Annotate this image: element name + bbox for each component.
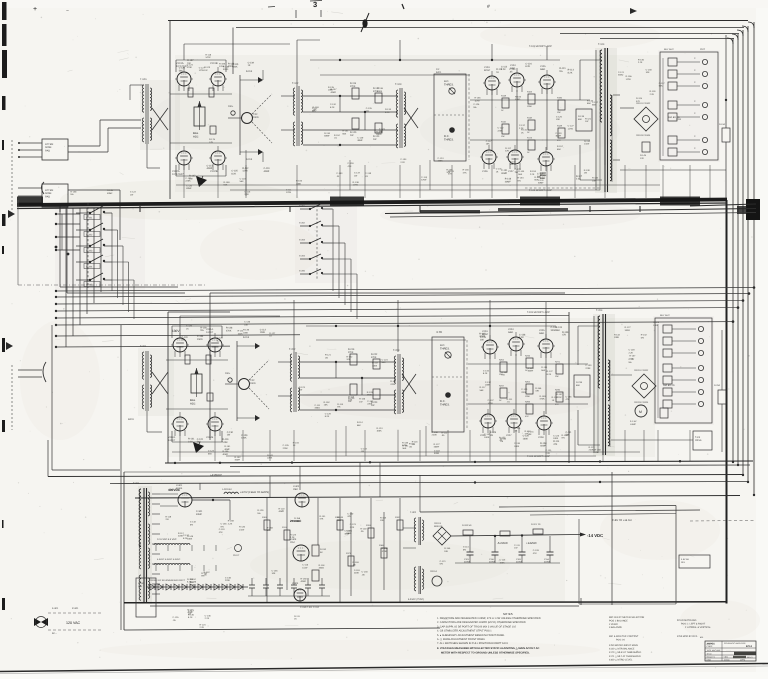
svg-text:2.2K: 2.2K xyxy=(244,193,249,196)
svg-text:220K: 220K xyxy=(497,129,503,132)
svg-text:5%: 5% xyxy=(518,179,521,182)
svg-text:100K: 100K xyxy=(653,324,659,327)
svg-text:R-139: R-139 xyxy=(432,431,439,434)
svg-text:8.2K: 8.2K xyxy=(385,111,390,114)
svg-text:R-147: R-147 xyxy=(372,362,379,365)
svg-text:R-151: R-151 xyxy=(409,443,416,446)
svg-text:R-145: R-145 xyxy=(187,535,194,538)
svg-text:C-113: C-113 xyxy=(206,164,213,167)
svg-text:R-150: R-150 xyxy=(301,577,308,580)
svg-text:R-122: R-122 xyxy=(346,355,353,358)
svg-text:C-113: C-113 xyxy=(421,176,428,179)
svg-text:OB2: OB2 xyxy=(293,488,298,491)
svg-text:NOTES: NOTES xyxy=(503,612,513,616)
svg-text:R148: R148 xyxy=(501,95,507,98)
svg-text:100K: 100K xyxy=(376,430,382,433)
svg-text:8.2K: 8.2K xyxy=(540,177,545,180)
svg-text:5%: 5% xyxy=(221,525,224,528)
svg-text:10K: 10K xyxy=(556,118,560,121)
svg-text:R-134: R-134 xyxy=(592,177,599,180)
svg-text:100K: 100K xyxy=(372,364,378,367)
svg-text:5881: 5881 xyxy=(540,68,546,71)
svg-text:C-132: C-132 xyxy=(367,400,374,403)
svg-text:REV 2: REV 2 xyxy=(747,656,752,659)
svg-text:330Ω: 330Ω xyxy=(515,98,521,101)
svg-text:8.2K: 8.2K xyxy=(217,339,222,342)
svg-text:R-151: R-151 xyxy=(541,366,548,369)
svg-text:R-157: R-157 xyxy=(187,59,194,62)
svg-text:C-117: C-117 xyxy=(659,82,666,85)
svg-text:5%: 5% xyxy=(628,361,631,364)
svg-text:R-222: R-222 xyxy=(371,353,378,356)
svg-text:R-321 7Ω: R-321 7Ω xyxy=(531,523,541,526)
svg-text:330Ω: 330Ω xyxy=(625,329,631,332)
svg-text:6. ( ) KNOB ADJUSTMENT FRONT P: 6. ( ) KNOB ADJUSTMENT FRONT PANEL xyxy=(437,638,486,641)
svg-text:M: M xyxy=(639,410,642,414)
svg-text:330Ω: 330Ω xyxy=(197,338,203,341)
svg-text:R-159: R-159 xyxy=(224,181,231,184)
svg-text:C-128: C-128 xyxy=(533,549,540,552)
svg-text:P-203 SECRET LOOP: P-203 SECRET LOOP xyxy=(527,455,551,458)
svg-text:F-301: F-301 xyxy=(52,607,59,610)
svg-text:PAD: PAD xyxy=(45,149,50,152)
svg-text:C-110: C-110 xyxy=(330,103,337,106)
svg-text:8.2K: 8.2K xyxy=(188,616,193,619)
svg-text:R-114: R-114 xyxy=(357,421,364,424)
svg-text:OA2: OA2 xyxy=(290,541,295,544)
svg-text:100+: 100+ xyxy=(228,105,234,108)
svg-text:L-301 8H: L-301 8H xyxy=(222,488,232,491)
svg-text:SCALE ½: SCALE ½ xyxy=(707,656,716,659)
svg-text:C-124: C-124 xyxy=(437,157,444,160)
svg-text:R-123: R-123 xyxy=(299,386,306,389)
svg-text:C-115: C-115 xyxy=(480,336,487,339)
svg-text:R173: R173 xyxy=(527,137,533,140)
svg-text:R-141: R-141 xyxy=(390,380,397,383)
svg-text:2.2K: 2.2K xyxy=(205,617,210,620)
svg-text:C-117: C-117 xyxy=(628,358,635,361)
svg-text:THRES.: THRES. xyxy=(440,403,450,406)
svg-text:5%: 5% xyxy=(473,106,476,109)
svg-text:130V: 130V xyxy=(172,329,180,333)
svg-text:40MF: 40MF xyxy=(528,369,534,372)
svg-text:56K: 56K xyxy=(659,85,663,88)
svg-text:7. ALL SWITCHES SHOWN IN FULL: 7. ALL SWITCHES SHOWN IN FULL POSITION E… xyxy=(437,642,509,645)
svg-text:R-155: R-155 xyxy=(296,180,303,183)
svg-text:R-129: R-129 xyxy=(257,509,264,512)
svg-text:R-153: R-153 xyxy=(530,170,537,173)
svg-text:R-152: R-152 xyxy=(324,401,331,404)
svg-text:P-301: P-301 xyxy=(72,607,79,610)
svg-text:220K: 220K xyxy=(521,391,527,394)
svg-text:T.02: T.02 xyxy=(250,379,255,382)
svg-text:C-125: C-125 xyxy=(556,115,563,118)
svg-text:SCHEMATIC AMPLIFIER: SCHEMATIC AMPLIFIER xyxy=(724,642,746,645)
svg-text:8.2K: 8.2K xyxy=(547,373,552,376)
svg-text:R-132: R-132 xyxy=(584,140,591,143)
svg-text:1/2 12AX7: 1/2 12AX7 xyxy=(172,173,184,176)
svg-text:2.2K: 2.2K xyxy=(629,351,634,354)
svg-text:5%: 5% xyxy=(463,548,466,551)
svg-text:POS 1-6: POS 1-6 xyxy=(616,638,626,641)
svg-text:~: ~ xyxy=(66,8,69,14)
svg-text:C-120: C-120 xyxy=(217,337,224,340)
svg-text:5881: 5881 xyxy=(508,331,514,334)
svg-text:R-115: R-115 xyxy=(232,63,239,66)
svg-text:C-122: C-122 xyxy=(497,127,504,130)
svg-text:40MF: 40MF xyxy=(196,513,202,516)
svg-text:5%: 5% xyxy=(641,336,644,339)
svg-text:R-152: R-152 xyxy=(334,134,341,137)
svg-text:R-145: R-145 xyxy=(640,154,647,157)
svg-text:R-158: R-158 xyxy=(595,448,602,451)
svg-text:R-320 5Ω: R-320 5Ω xyxy=(462,524,472,527)
svg-text:R-176: R-176 xyxy=(209,138,216,141)
svg-text:CORP: CORP xyxy=(707,645,713,648)
svg-text:56K: 56K xyxy=(337,519,341,522)
svg-text:R-119: R-119 xyxy=(650,90,657,93)
svg-text:R-143: R-143 xyxy=(540,174,547,177)
svg-text:1K: 1K xyxy=(248,64,251,67)
svg-text:. . . . .: . . . . . xyxy=(726,650,731,652)
svg-text:56K: 56K xyxy=(312,110,316,113)
svg-text:C-110: C-110 xyxy=(263,167,270,170)
svg-text:CR313: CR313 xyxy=(434,522,442,525)
svg-text:10K: 10K xyxy=(555,375,559,378)
svg-text:T-301: T-301 xyxy=(133,482,140,485)
svg-text:V208: V208 xyxy=(538,436,544,439)
svg-text:220K: 220K xyxy=(178,535,184,538)
svg-text:5%: 5% xyxy=(200,329,203,332)
svg-text:T-203: T-203 xyxy=(393,349,400,352)
svg-text:100K: 100K xyxy=(377,90,383,93)
svg-text:R-135: R-135 xyxy=(187,578,194,581)
svg-text:R-219: R-219 xyxy=(348,348,355,351)
svg-text:R-117: R-117 xyxy=(576,175,583,178)
svg-text:R-144: R-144 xyxy=(501,371,508,374)
svg-text:R-143: R-143 xyxy=(587,99,594,102)
svg-text:8.2K: 8.2K xyxy=(325,415,330,418)
svg-text:8.2K: 8.2K xyxy=(231,172,236,175)
svg-text:40MF: 40MF xyxy=(263,170,269,173)
svg-text:R-127: R-127 xyxy=(434,443,441,446)
svg-text:47K: 47K xyxy=(319,518,323,521)
svg-text:R-139: R-139 xyxy=(243,329,250,332)
svg-text:40MF: 40MF xyxy=(331,91,337,94)
svg-text:R235: R235 xyxy=(555,389,561,392)
svg-text:C-136: C-136 xyxy=(221,523,228,526)
svg-text:R-120: R-120 xyxy=(360,527,367,530)
svg-text:C-138: C-138 xyxy=(225,576,232,579)
svg-text:R-124: R-124 xyxy=(376,427,383,430)
svg-text:470K: 470K xyxy=(367,394,373,397)
svg-text:47K: 47K xyxy=(533,552,537,555)
svg-text:47K: 47K xyxy=(525,415,529,418)
svg-text:TAPE MACHINE: TAPE MACHINE xyxy=(707,649,722,652)
svg-text:R-147: R-147 xyxy=(331,88,338,91)
svg-text:R-148: R-148 xyxy=(505,178,512,181)
svg-text:56K: 56K xyxy=(342,132,346,135)
svg-text:-14 VDC: -14 VDC xyxy=(587,533,603,538)
svg-text:47K: 47K xyxy=(448,173,452,176)
svg-text:R-157: R-157 xyxy=(557,145,564,148)
svg-text:56K: 56K xyxy=(541,369,545,372)
svg-text:R-141: R-141 xyxy=(319,515,326,518)
svg-text:+370V (FEED TO AMPS): +370V (FEED TO AMPS) xyxy=(240,491,269,494)
svg-text:R-250: R-250 xyxy=(714,384,721,387)
svg-text:5U4G: 5U4G xyxy=(176,487,182,490)
svg-text:R-147: R-147 xyxy=(556,393,563,396)
svg-text:330Ω: 330Ω xyxy=(434,452,440,455)
svg-text:R-132: R-132 xyxy=(641,334,648,337)
svg-text:100K: 100K xyxy=(232,66,238,69)
svg-text:2.2K: 2.2K xyxy=(200,626,205,629)
svg-text:5%: 5% xyxy=(257,512,260,515)
svg-text:C-130: C-130 xyxy=(585,364,592,367)
svg-text:40MF: 40MF xyxy=(505,180,511,183)
svg-text:R293: R293 xyxy=(525,401,531,404)
svg-text:R-114: R-114 xyxy=(337,403,344,406)
svg-text:470K: 470K xyxy=(390,383,396,386)
svg-text:4171 △ MLT AT THRESHOLD: 4171 △ MLT AT THRESHOLD xyxy=(609,655,641,658)
svg-text:C-111: C-111 xyxy=(565,431,572,434)
svg-text:R-118: R-118 xyxy=(614,334,621,337)
svg-text:THIS TO +14 SU: THIS TO +14 SU xyxy=(612,519,632,522)
svg-text:40MF: 40MF xyxy=(279,510,285,513)
svg-text:40MF: 40MF xyxy=(501,172,507,175)
svg-text:220K: 220K xyxy=(589,449,595,452)
svg-text:1K: 1K xyxy=(496,71,499,74)
svg-text:T-103 SECRET LOOP: T-103 SECRET LOOP xyxy=(529,45,552,48)
svg-text:C-132: C-132 xyxy=(190,521,197,524)
svg-text:0-1.5V: 0-1.5V xyxy=(630,420,637,423)
svg-text:C-123: C-123 xyxy=(208,450,215,453)
svg-text:THRES.: THRES. xyxy=(444,138,454,141)
svg-text:C-128: C-128 xyxy=(551,326,558,329)
svg-text:BLK WHT: BLK WHT xyxy=(664,48,674,51)
svg-text:C-119: C-119 xyxy=(354,569,361,572)
svg-text:+410VDC: +410VDC xyxy=(210,473,222,477)
svg-text:2.2K: 2.2K xyxy=(650,93,655,96)
svg-text:220K: 220K xyxy=(283,447,289,450)
svg-text:C-123: C-123 xyxy=(350,523,357,526)
svg-text:R-148: R-148 xyxy=(353,561,360,564)
svg-text:C-126: C-126 xyxy=(473,103,480,106)
svg-text:T-103: T-103 xyxy=(395,83,402,86)
svg-text:R-159: R-159 xyxy=(228,520,235,523)
svg-text:1. RESISTORS ARE DESIGNATED 0: 1. RESISTORS ARE DESIGNATED 0.05MF, 47K … xyxy=(437,617,541,620)
svg-text:C-124: C-124 xyxy=(525,62,532,65)
svg-text:R-152: R-152 xyxy=(525,430,532,433)
svg-text:100K: 100K xyxy=(527,105,532,108)
svg-text:C-129: C-129 xyxy=(357,136,364,139)
svg-text:3. CAP SUPPL 82 DE PORT OF TRI: 3. CAP SUPPL 82 DE PORT OF TRIO B MIX 3 … xyxy=(437,625,517,628)
svg-text:R-155: R-155 xyxy=(222,450,229,453)
svg-text:4160 △ MTRD LEVEL: 4160 △ MTRD LEVEL xyxy=(609,658,633,661)
svg-text:270K: 270K xyxy=(350,85,356,88)
svg-text:PAD: PAD xyxy=(45,195,50,198)
svg-text:R-123: R-123 xyxy=(290,533,297,536)
svg-text:56K: 56K xyxy=(565,434,570,437)
svg-text:56K: 56K xyxy=(480,389,484,392)
svg-text:R-138: R-138 xyxy=(353,181,360,184)
svg-text:6.3VAC (7VDC): 6.3VAC (7VDC) xyxy=(408,598,424,601)
svg-text:ADJ.: ADJ. xyxy=(190,401,196,405)
svg-text:100+: 100+ xyxy=(225,372,231,375)
svg-text:V107: V107 xyxy=(508,170,514,173)
svg-text:R-141: R-141 xyxy=(267,454,274,457)
svg-text:220K: 220K xyxy=(432,434,438,437)
svg-text:C-111: C-111 xyxy=(514,544,520,547)
svg-text:R-134: R-134 xyxy=(324,132,331,135)
svg-text:R-138: R-138 xyxy=(402,441,409,444)
svg-text:R-159: R-159 xyxy=(382,547,389,550)
svg-text:R-139: R-139 xyxy=(200,326,207,329)
svg-text:56K: 56K xyxy=(592,104,596,107)
svg-text:C-117: C-117 xyxy=(486,140,493,143)
svg-text:C-110: C-110 xyxy=(219,528,226,531)
svg-text:2.2K: 2.2K xyxy=(350,526,355,529)
svg-text:47K: 47K xyxy=(557,139,561,142)
svg-text:R-124: R-124 xyxy=(200,623,207,626)
svg-text:10K: 10K xyxy=(244,323,248,326)
svg-text:R-158: R-158 xyxy=(294,517,301,520)
svg-text:C-301: C-301 xyxy=(196,510,203,513)
svg-text:R-139: R-139 xyxy=(578,115,585,118)
svg-text:BRIDGE: BRIDGE xyxy=(434,525,443,528)
svg-text:56K: 56K xyxy=(587,102,591,105)
svg-text:T-104: T-104 xyxy=(598,43,605,46)
svg-text:C-120: C-120 xyxy=(653,321,660,324)
svg-text:C-136: C-136 xyxy=(566,395,573,398)
svg-text:R-112: R-112 xyxy=(178,532,185,535)
svg-text:R-158: R-158 xyxy=(380,516,387,519)
svg-text:S-205: S-205 xyxy=(299,270,306,273)
svg-text:C-134: C-134 xyxy=(483,369,490,372)
svg-text:V207: V207 xyxy=(506,434,512,437)
svg-text:5881: 5881 xyxy=(539,332,545,335)
svg-text:R-121: R-121 xyxy=(589,446,596,449)
svg-text:C-133: C-133 xyxy=(362,571,369,574)
svg-text:470K: 470K xyxy=(371,356,377,359)
svg-text:R-119: R-119 xyxy=(222,438,229,441)
svg-text:T-201: T-201 xyxy=(140,345,147,348)
svg-text:TITLE: TITLE xyxy=(707,652,713,655)
svg-text:C-114: C-114 xyxy=(463,546,470,549)
svg-text:S-203: S-203 xyxy=(299,239,306,242)
svg-text:C-121: C-121 xyxy=(379,128,386,131)
svg-text:C-111: C-111 xyxy=(312,107,318,110)
svg-text:R-239: R-239 xyxy=(576,381,583,384)
svg-text:100K: 100K xyxy=(485,384,491,387)
svg-text:100K: 100K xyxy=(523,437,529,440)
svg-text:R-114: R-114 xyxy=(553,440,560,443)
svg-text:C-120: C-120 xyxy=(186,184,193,187)
svg-text:40MF: 40MF xyxy=(301,580,307,583)
svg-text:4760 WATED INPUT MAIN: 4760 WATED INPUT MAIN xyxy=(609,644,638,647)
svg-text:60 ~: 60 ~ xyxy=(52,632,57,635)
svg-text:R-121: R-121 xyxy=(325,354,332,357)
svg-text:C-120: C-120 xyxy=(186,325,193,328)
svg-text:C-129: C-129 xyxy=(325,412,332,415)
svg-text:330Ω: 330Ω xyxy=(551,329,557,332)
svg-text:R-112: R-112 xyxy=(441,431,448,434)
svg-text:R190: R190 xyxy=(557,97,563,100)
svg-text:C-128: C-128 xyxy=(348,162,355,165)
svg-text:40MF: 40MF xyxy=(324,135,330,138)
svg-text:R-139: R-139 xyxy=(562,331,569,334)
svg-text:56K: 56K xyxy=(556,329,561,332)
svg-text:R-146: R-146 xyxy=(359,398,366,401)
svg-text:1/2W: 1/2W xyxy=(242,170,248,173)
svg-text:2.2K: 2.2K xyxy=(400,161,405,164)
svg-text:R-127: R-127 xyxy=(189,175,196,178)
svg-text:C-135: C-135 xyxy=(272,569,279,572)
svg-text:2.2K: 2.2K xyxy=(190,583,195,586)
svg-text:R-138: R-138 xyxy=(540,442,547,445)
svg-text:330Ω: 330Ω xyxy=(319,567,325,570)
svg-text:10K: 10K xyxy=(480,339,485,342)
svg-text:R-119: R-119 xyxy=(165,515,172,518)
svg-text:10K: 10K xyxy=(646,71,650,74)
svg-text:8.2K: 8.2K xyxy=(519,336,524,339)
svg-text:R163: R163 xyxy=(527,91,533,94)
svg-text:C-119: C-119 xyxy=(434,449,441,452)
svg-text:T-202: T-202 xyxy=(289,348,296,351)
svg-text:8.2K: 8.2K xyxy=(330,106,335,109)
svg-text:3: 3 xyxy=(313,0,317,9)
svg-text:OUT: OUT xyxy=(700,48,706,51)
svg-text:C-129: C-129 xyxy=(629,349,636,352)
svg-text:T-302: T-302 xyxy=(410,511,417,514)
svg-text:470K: 470K xyxy=(540,398,546,401)
svg-text:R-152: R-152 xyxy=(234,456,241,459)
svg-text:3 BALANCE: 3 BALANCE xyxy=(609,626,623,629)
svg-text:C-120: C-120 xyxy=(181,336,188,339)
svg-text:40MF: 40MF xyxy=(357,139,363,142)
svg-text:47K: 47K xyxy=(348,165,352,168)
svg-text:40MF: 40MF xyxy=(540,445,546,448)
svg-text:8.2K: 8.2K xyxy=(568,72,573,75)
svg-text:10K: 10K xyxy=(348,398,352,401)
svg-text:S-202: S-202 xyxy=(299,222,306,225)
svg-text:56K: 56K xyxy=(357,424,361,427)
svg-text:C-139: C-139 xyxy=(248,61,255,64)
svg-text:R-128: R-128 xyxy=(226,327,233,330)
svg-text:56K: 56K xyxy=(197,441,202,444)
svg-text:8.2K: 8.2K xyxy=(525,65,530,68)
svg-text:CR201 CR202: CR201 CR202 xyxy=(634,369,649,372)
svg-text:47K: 47K xyxy=(219,531,223,534)
svg-text:V106: V106 xyxy=(482,170,488,173)
svg-text:270K: 270K xyxy=(348,351,354,354)
svg-text:C-113: C-113 xyxy=(499,559,506,562)
svg-text:BLK WHT: BLK WHT xyxy=(660,314,670,317)
svg-text:470K: 470K xyxy=(187,66,193,69)
svg-text:4140 △ MTR BALANCE: 4140 △ MTR BALANCE xyxy=(609,648,635,651)
svg-text:47K: 47K xyxy=(347,515,351,518)
svg-text:R-118: R-118 xyxy=(205,53,212,56)
svg-text:C-131: C-131 xyxy=(545,449,552,452)
svg-text:R-118: R-118 xyxy=(319,564,326,567)
svg-text:100Ω: 100Ω xyxy=(253,116,259,119)
svg-text:C-121: C-121 xyxy=(618,71,625,74)
svg-text:R-117: R-117 xyxy=(505,147,512,150)
svg-text:600Ω: 600Ω xyxy=(128,418,134,421)
svg-text:40MF: 40MF xyxy=(234,458,240,461)
svg-text:C-126: C-126 xyxy=(173,616,180,619)
svg-text:V101B: V101B xyxy=(210,62,218,65)
